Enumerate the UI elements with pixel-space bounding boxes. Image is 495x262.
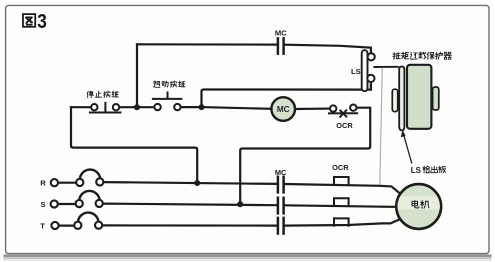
label 图3: [23, 14, 35, 27]
heater OCR S phase: [334, 198, 349, 205]
wire OCR contact to right drop: [240, 108, 370, 205]
svg-text:OCR: OCR: [336, 121, 353, 130]
svg-text:S: S: [40, 200, 45, 209]
contact MC R phase: [278, 177, 284, 193]
contact MC T phase: [278, 218, 284, 234]
wire T switch link: [59, 225, 75, 227]
switch S terminals: [51, 200, 103, 208]
svg-text:LS: LS: [351, 67, 361, 76]
svg-text:MC: MC: [275, 29, 287, 38]
heater OCR T phase: [334, 218, 349, 225]
wire faint drop from stub to R motor wire: [380, 67, 383, 185]
wire vertical from top rail down to control line: [136, 44, 138, 107]
node junction S phase: [237, 201, 243, 207]
svg-text:MC: MC: [275, 168, 287, 177]
start button (NO pushbutton): [152, 92, 182, 111]
wire start button to junction: [181, 106, 201, 108]
svg-text:R: R: [40, 178, 46, 187]
left tab: [392, 89, 397, 111]
switch T blade arc: [78, 213, 98, 222]
label stop button 停止按钮: [87, 91, 118, 98]
wire S line to motor: [103, 204, 396, 207]
coil MC U1: [271, 97, 295, 121]
wire S switch link: [58, 203, 75, 205]
svg-text:MC: MC: [277, 105, 290, 114]
svg-text:3: 3: [37, 11, 47, 34]
wire T line to motor: [103, 220, 399, 226]
wire stub LS to detection board: [374, 66, 399, 68]
contact MC S phase: [278, 198, 284, 214]
LS detection board: [399, 67, 404, 131]
arrow to LS detection board: [404, 135, 412, 164]
LS terminal top: [368, 53, 375, 60]
node junction dot (stop/start): [134, 104, 140, 110]
bottom scan shadow strip: [4, 254, 492, 257]
node junction R phase: [194, 180, 200, 186]
switch T terminals: [51, 222, 102, 230]
wire R switch link: [59, 182, 76, 184]
wire left return from control line to R phase: [71, 107, 197, 183]
switch S blade arc: [79, 191, 99, 200]
stop button (NC pushbutton): [89, 102, 122, 113]
label 电机: [412, 200, 429, 208]
svg-text:T: T: [40, 221, 45, 230]
label start button 起动按钮: [154, 81, 186, 87]
heater OCR R phase: [334, 177, 349, 184]
LS terminal bottom: [367, 75, 374, 82]
wire between stop and start buttons: [120, 106, 154, 108]
switch R blade arc: [80, 170, 100, 179]
label 扭矩过载保护器: [393, 52, 451, 59]
wire MC coil to OCR contact: [295, 107, 330, 110]
svg-text:OCR: OCR: [332, 163, 349, 172]
right tab: [433, 87, 439, 110]
wire R line to motor: [104, 182, 400, 194]
LS connector plug: [362, 50, 368, 91]
main block (torque protector body): [407, 65, 431, 129]
wire top rail from start/stop junction to LS connector: [137, 44, 371, 53]
wire junction to MC coil: [202, 107, 272, 109]
switch R terminals: [51, 178, 104, 186]
node junction dot (after start button): [199, 104, 205, 110]
motor M1: [396, 184, 441, 229]
contact MC (holding, top): [278, 38, 284, 53]
svg-text:LS: LS: [411, 166, 421, 175]
wire bottom rail from start junction to LS connector: [202, 82, 371, 107]
contact OCR (NC, control): [328, 105, 358, 118]
wire control line left segment: [71, 106, 91, 108]
